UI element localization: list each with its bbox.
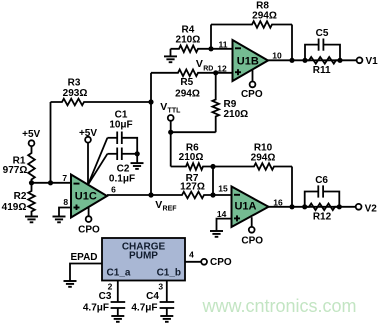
R6 value label bbox=[179, 142, 204, 163]
wire R3 left vertical bbox=[50, 102, 52, 183]
ground below U1C pin 8 bbox=[53, 217, 66, 223]
U1C pin 7 number bbox=[62, 173, 67, 183]
U1C CPO stub bbox=[86, 207, 92, 222]
resistor R9 bbox=[212, 73, 219, 132]
charge pump pin C1_a label bbox=[107, 268, 131, 279]
svg-text:U1C: U1C bbox=[75, 191, 97, 203]
op-amp U1B bbox=[233, 40, 269, 81]
wire diagonal C1 to supply pin bbox=[88, 138, 107, 185]
svg-text:CPO: CPO bbox=[210, 257, 232, 268]
U1B CPO stub bbox=[250, 70, 256, 88]
svg-text:R12: R12 bbox=[313, 212, 332, 223]
svg-text:www.cntronics.com: www.cntronics.com bbox=[202, 296, 357, 316]
VREF net label bbox=[155, 199, 177, 212]
svg-text:EPAD: EPAD bbox=[70, 252, 97, 263]
node C6/R12 left bbox=[302, 204, 307, 209]
wire pin15 node to U1A bbox=[213, 194, 232, 196]
R12 value label bbox=[313, 212, 332, 223]
node R1-R2 junction bbox=[29, 180, 34, 185]
wire U1A pin 14 to ground bbox=[217, 219, 232, 231]
ground below EPAD bbox=[64, 281, 77, 287]
wire R6 down to pin15 node bbox=[212, 167, 214, 196]
U1B pin 10 number bbox=[272, 50, 282, 60]
svg-text:V: V bbox=[160, 101, 167, 113]
wire pin 2 stub bbox=[117, 281, 119, 303]
node C6/R12 right bbox=[337, 204, 342, 209]
svg-text:293Ω: 293Ω bbox=[63, 88, 88, 99]
resistor R8 (feedback) bbox=[211, 21, 292, 28]
wire R10 right vertical bbox=[291, 167, 293, 207]
R11 value label bbox=[313, 65, 331, 76]
svg-text:R5: R5 bbox=[180, 77, 193, 88]
resistor R4 bbox=[171, 46, 212, 53]
wire pin 3 stub bbox=[166, 281, 168, 303]
svg-text:R8: R8 bbox=[256, 0, 269, 11]
charge pump pin 4 number bbox=[189, 250, 194, 260]
wire R8 right vertical bbox=[291, 25, 293, 61]
charge pump pin C1_b label bbox=[157, 268, 181, 279]
ground below U1A pin 14 bbox=[210, 231, 223, 237]
node U1A pin 15 bbox=[210, 192, 215, 197]
svg-text:7: 7 bbox=[62, 173, 67, 183]
svg-text:V2: V2 bbox=[365, 203, 378, 214]
+5V supply terminal (U1C) bbox=[79, 128, 97, 143]
op-amp U1C bbox=[71, 175, 107, 218]
svg-text:10: 10 bbox=[272, 50, 282, 60]
C1 value label bbox=[109, 110, 132, 131]
wire pin 4 to CPO terminal bbox=[185, 259, 207, 265]
R1 value label bbox=[3, 156, 28, 177]
resistor R1 bbox=[28, 152, 35, 183]
svg-text:210Ω: 210Ω bbox=[176, 35, 201, 46]
node VRD / pin 12 bbox=[213, 70, 218, 75]
svg-text:3: 3 bbox=[158, 281, 163, 291]
U1C CPO label bbox=[78, 224, 100, 235]
watermark www.cntronics.com bbox=[202, 296, 357, 316]
wire +5V to U1C supply pin bbox=[87, 143, 89, 185]
capacitor C1 bbox=[107, 132, 137, 154]
op-amp U1A bbox=[232, 187, 269, 228]
ground below C3 bbox=[111, 316, 124, 322]
svg-text:V1: V1 bbox=[366, 56, 378, 67]
resistor R5 bbox=[151, 70, 233, 77]
svg-text:U1B: U1B bbox=[237, 56, 259, 68]
R4 value label bbox=[176, 24, 201, 45]
resistor R10 bbox=[213, 163, 292, 170]
svg-text:C1_b: C1_b bbox=[157, 268, 181, 279]
R10 value label bbox=[251, 143, 276, 164]
R7 value label bbox=[180, 173, 205, 193]
node R8 feedback on output bbox=[289, 58, 294, 63]
resistor R12 bbox=[305, 204, 340, 211]
capacitor C4 bbox=[160, 302, 175, 316]
svg-text:TTL: TTL bbox=[168, 107, 182, 114]
svg-text:10μF: 10μF bbox=[109, 120, 132, 131]
resistor R11 bbox=[305, 57, 340, 64]
svg-text:RD: RD bbox=[203, 65, 213, 72]
ground below R2 bbox=[25, 217, 38, 223]
ground left of R4 bbox=[164, 56, 177, 62]
U1B pin 12 number bbox=[217, 63, 227, 73]
wire U1A output bbox=[269, 206, 356, 208]
R3 value label bbox=[63, 78, 88, 100]
svg-text:14: 14 bbox=[217, 209, 227, 219]
VTTL terminal bbox=[168, 115, 174, 121]
capacitor C3 bbox=[111, 302, 126, 316]
U1A CPO stub bbox=[249, 217, 255, 233]
svg-text:C1_a: C1_a bbox=[107, 268, 131, 279]
U1C pin 8 number bbox=[63, 197, 68, 207]
svg-text:12: 12 bbox=[217, 63, 227, 73]
svg-text:127Ω: 127Ω bbox=[180, 182, 205, 193]
VTTL net label bbox=[160, 101, 181, 114]
charge pump pin 2 number bbox=[108, 281, 113, 291]
svg-text:C5: C5 bbox=[316, 28, 329, 39]
svg-text:V: V bbox=[196, 58, 203, 70]
C3 value label bbox=[83, 291, 112, 313]
svg-text:CPO: CPO bbox=[241, 236, 263, 247]
R2 value label bbox=[2, 191, 27, 213]
C5 value label bbox=[316, 28, 329, 39]
wire R4 ground stem bbox=[170, 49, 172, 57]
C4 value label bbox=[131, 291, 159, 313]
U1B pin 11 number bbox=[219, 39, 228, 49]
wire junction to U1C pin 7 bbox=[32, 182, 72, 184]
resistor R3 bbox=[51, 99, 152, 106]
svg-text:U1A: U1A bbox=[234, 201, 256, 213]
node U1B pin 11 bbox=[208, 46, 213, 51]
wire R8 left vertical bbox=[210, 25, 212, 49]
charge pump CPO label bbox=[210, 257, 232, 268]
node R6/R10 junction bbox=[210, 164, 215, 169]
resistor R7 bbox=[151, 192, 213, 199]
node C5/R11 left bbox=[302, 58, 307, 63]
capacitor C6 bbox=[305, 185, 340, 206]
charge pump U2 box bbox=[102, 238, 185, 281]
C2 value label bbox=[109, 164, 135, 185]
svg-text:C6: C6 bbox=[315, 175, 328, 186]
R5 value label bbox=[175, 77, 200, 100]
svg-text:210Ω: 210Ω bbox=[224, 109, 249, 120]
wire C1/C2 junction to ground bbox=[136, 154, 138, 163]
node R10 feedback on output bbox=[289, 204, 294, 209]
svg-text:977Ω: 977Ω bbox=[3, 165, 28, 176]
U1A CPO label bbox=[241, 236, 263, 247]
wire pin11 node to U1B bbox=[211, 48, 233, 50]
U1A pin 15 number bbox=[218, 183, 228, 193]
svg-text:CPO: CPO bbox=[78, 224, 100, 235]
ground below C2 bbox=[131, 163, 144, 169]
wire vertical x151 lower (R3 to VREF) bbox=[150, 102, 152, 195]
svg-text:4.7μF: 4.7μF bbox=[131, 302, 157, 313]
node VTTL junction bbox=[168, 130, 173, 135]
U1A pin 16 number bbox=[273, 198, 283, 208]
U1B CPO label bbox=[241, 89, 263, 100]
R8 value label bbox=[252, 0, 277, 21]
resistor R6 bbox=[171, 163, 213, 170]
charge pump pin 3 number bbox=[158, 281, 163, 291]
svg-text:R3: R3 bbox=[68, 78, 81, 89]
VRD net label bbox=[196, 58, 213, 73]
EPAD pin label bbox=[70, 252, 97, 263]
node C1/C2 right junction bbox=[135, 151, 140, 156]
wire diagonal C2 to supply pin bbox=[88, 154, 107, 185]
R9 value label bbox=[224, 99, 249, 120]
svg-text:+5V: +5V bbox=[22, 129, 40, 140]
svg-text:11: 11 bbox=[219, 39, 228, 49]
wire U1C pin 8 to ground bbox=[59, 208, 71, 217]
U1C pin 6 number bbox=[111, 184, 116, 194]
wire vertical x151 upper (R5 left to R3) bbox=[150, 73, 152, 102]
svg-text:0.1μF: 0.1μF bbox=[109, 174, 135, 185]
svg-text:4.7μF: 4.7μF bbox=[83, 302, 109, 313]
svg-text:PUMP: PUMP bbox=[129, 251, 158, 262]
svg-text:R11: R11 bbox=[313, 65, 331, 76]
svg-text:C4: C4 bbox=[146, 291, 159, 302]
svg-text:REF: REF bbox=[163, 206, 178, 213]
svg-text:6: 6 bbox=[111, 184, 116, 194]
svg-text:V: V bbox=[155, 199, 162, 211]
wire U1B output bbox=[268, 59, 357, 61]
wire R9 bottom elbow to VTTL bbox=[171, 131, 216, 133]
wire VTTL down to R6 bbox=[170, 132, 172, 166]
svg-text:210Ω: 210Ω bbox=[179, 152, 204, 163]
svg-text:15: 15 bbox=[218, 183, 228, 193]
capacitor C2 bbox=[107, 148, 137, 161]
C6 value label bbox=[315, 175, 328, 186]
V1 output terminal bbox=[357, 56, 378, 67]
node VREF bbox=[148, 192, 153, 197]
node R3 branch on pin7 wire bbox=[48, 180, 53, 185]
svg-text:294Ω: 294Ω bbox=[175, 89, 200, 100]
capacitor C5 bbox=[305, 39, 340, 61]
svg-text:294Ω: 294Ω bbox=[252, 11, 277, 22]
U1A pin 14 number bbox=[217, 209, 227, 219]
+5V supply terminal (R1 top) bbox=[22, 129, 40, 146]
svg-text:R2: R2 bbox=[14, 191, 27, 202]
wire U1C output bbox=[107, 194, 151, 196]
svg-text:8: 8 bbox=[63, 197, 68, 207]
node C5/R11 right bbox=[337, 58, 342, 63]
svg-text:294Ω: 294Ω bbox=[251, 153, 276, 164]
svg-text:4: 4 bbox=[189, 250, 194, 260]
svg-text:2: 2 bbox=[108, 281, 113, 291]
wire +5V to R1 bbox=[31, 146, 33, 152]
svg-text:CPO: CPO bbox=[241, 89, 263, 100]
wire EPAD to ground bbox=[70, 264, 102, 282]
node R3 to VRD/VREF vertical bbox=[148, 99, 153, 104]
V2 output terminal bbox=[356, 203, 378, 214]
svg-text:C3: C3 bbox=[99, 291, 112, 302]
ground below C4 bbox=[160, 316, 173, 322]
svg-text:419Ω: 419Ω bbox=[2, 202, 27, 213]
wire VTTL terminal stem bbox=[170, 121, 172, 132]
resistor R2 bbox=[28, 183, 35, 217]
